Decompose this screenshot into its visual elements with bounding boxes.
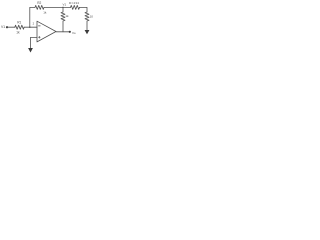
op-amp minus sign bbox=[38, 25, 40, 27]
resistor R5 vertical bbox=[85, 12, 89, 30]
svg-text:Vo: Vo bbox=[72, 31, 76, 35]
wire output bbox=[56, 31, 70, 33]
node B junction bbox=[62, 7, 63, 8]
svg-text:V1: V1 bbox=[63, 2, 67, 6]
wire feedback up bbox=[30, 7, 35, 27]
wire bbox=[44, 6, 63, 8]
wire noninverting input bbox=[31, 37, 38, 48]
op-amp U1 bbox=[37, 21, 56, 42]
ground arrow at op-amp plus input bbox=[28, 48, 33, 53]
wire bbox=[24, 26, 37, 28]
svg-text:R1: R1 bbox=[17, 21, 21, 25]
svg-text:1k: 1k bbox=[43, 11, 47, 15]
ground arrow at right branch bbox=[85, 30, 90, 34]
svg-text:1k: 1k bbox=[65, 14, 69, 18]
op-amp plus sign bbox=[38, 36, 40, 38]
wire bbox=[80, 7, 88, 12]
svg-text:R2: R2 bbox=[37, 1, 41, 5]
node A junction bbox=[29, 27, 30, 28]
node Vout terminal dot bbox=[69, 31, 71, 33]
node Vin terminal dot bbox=[6, 26, 8, 28]
resistor R4 bbox=[71, 5, 80, 9]
resistor R3 vertical bbox=[61, 7, 65, 31]
resistor R1 bbox=[15, 25, 24, 29]
svg-text:10: 10 bbox=[90, 14, 94, 18]
resistor R2 bbox=[35, 5, 44, 9]
svg-text:1k: 1k bbox=[16, 31, 20, 35]
wire bbox=[7, 26, 15, 28]
svg-text:D=434: D=434 bbox=[69, 1, 79, 5]
svg-text:V1: V1 bbox=[1, 25, 5, 29]
wire top right bbox=[63, 6, 71, 8]
svg-text:2: 2 bbox=[33, 22, 35, 26]
